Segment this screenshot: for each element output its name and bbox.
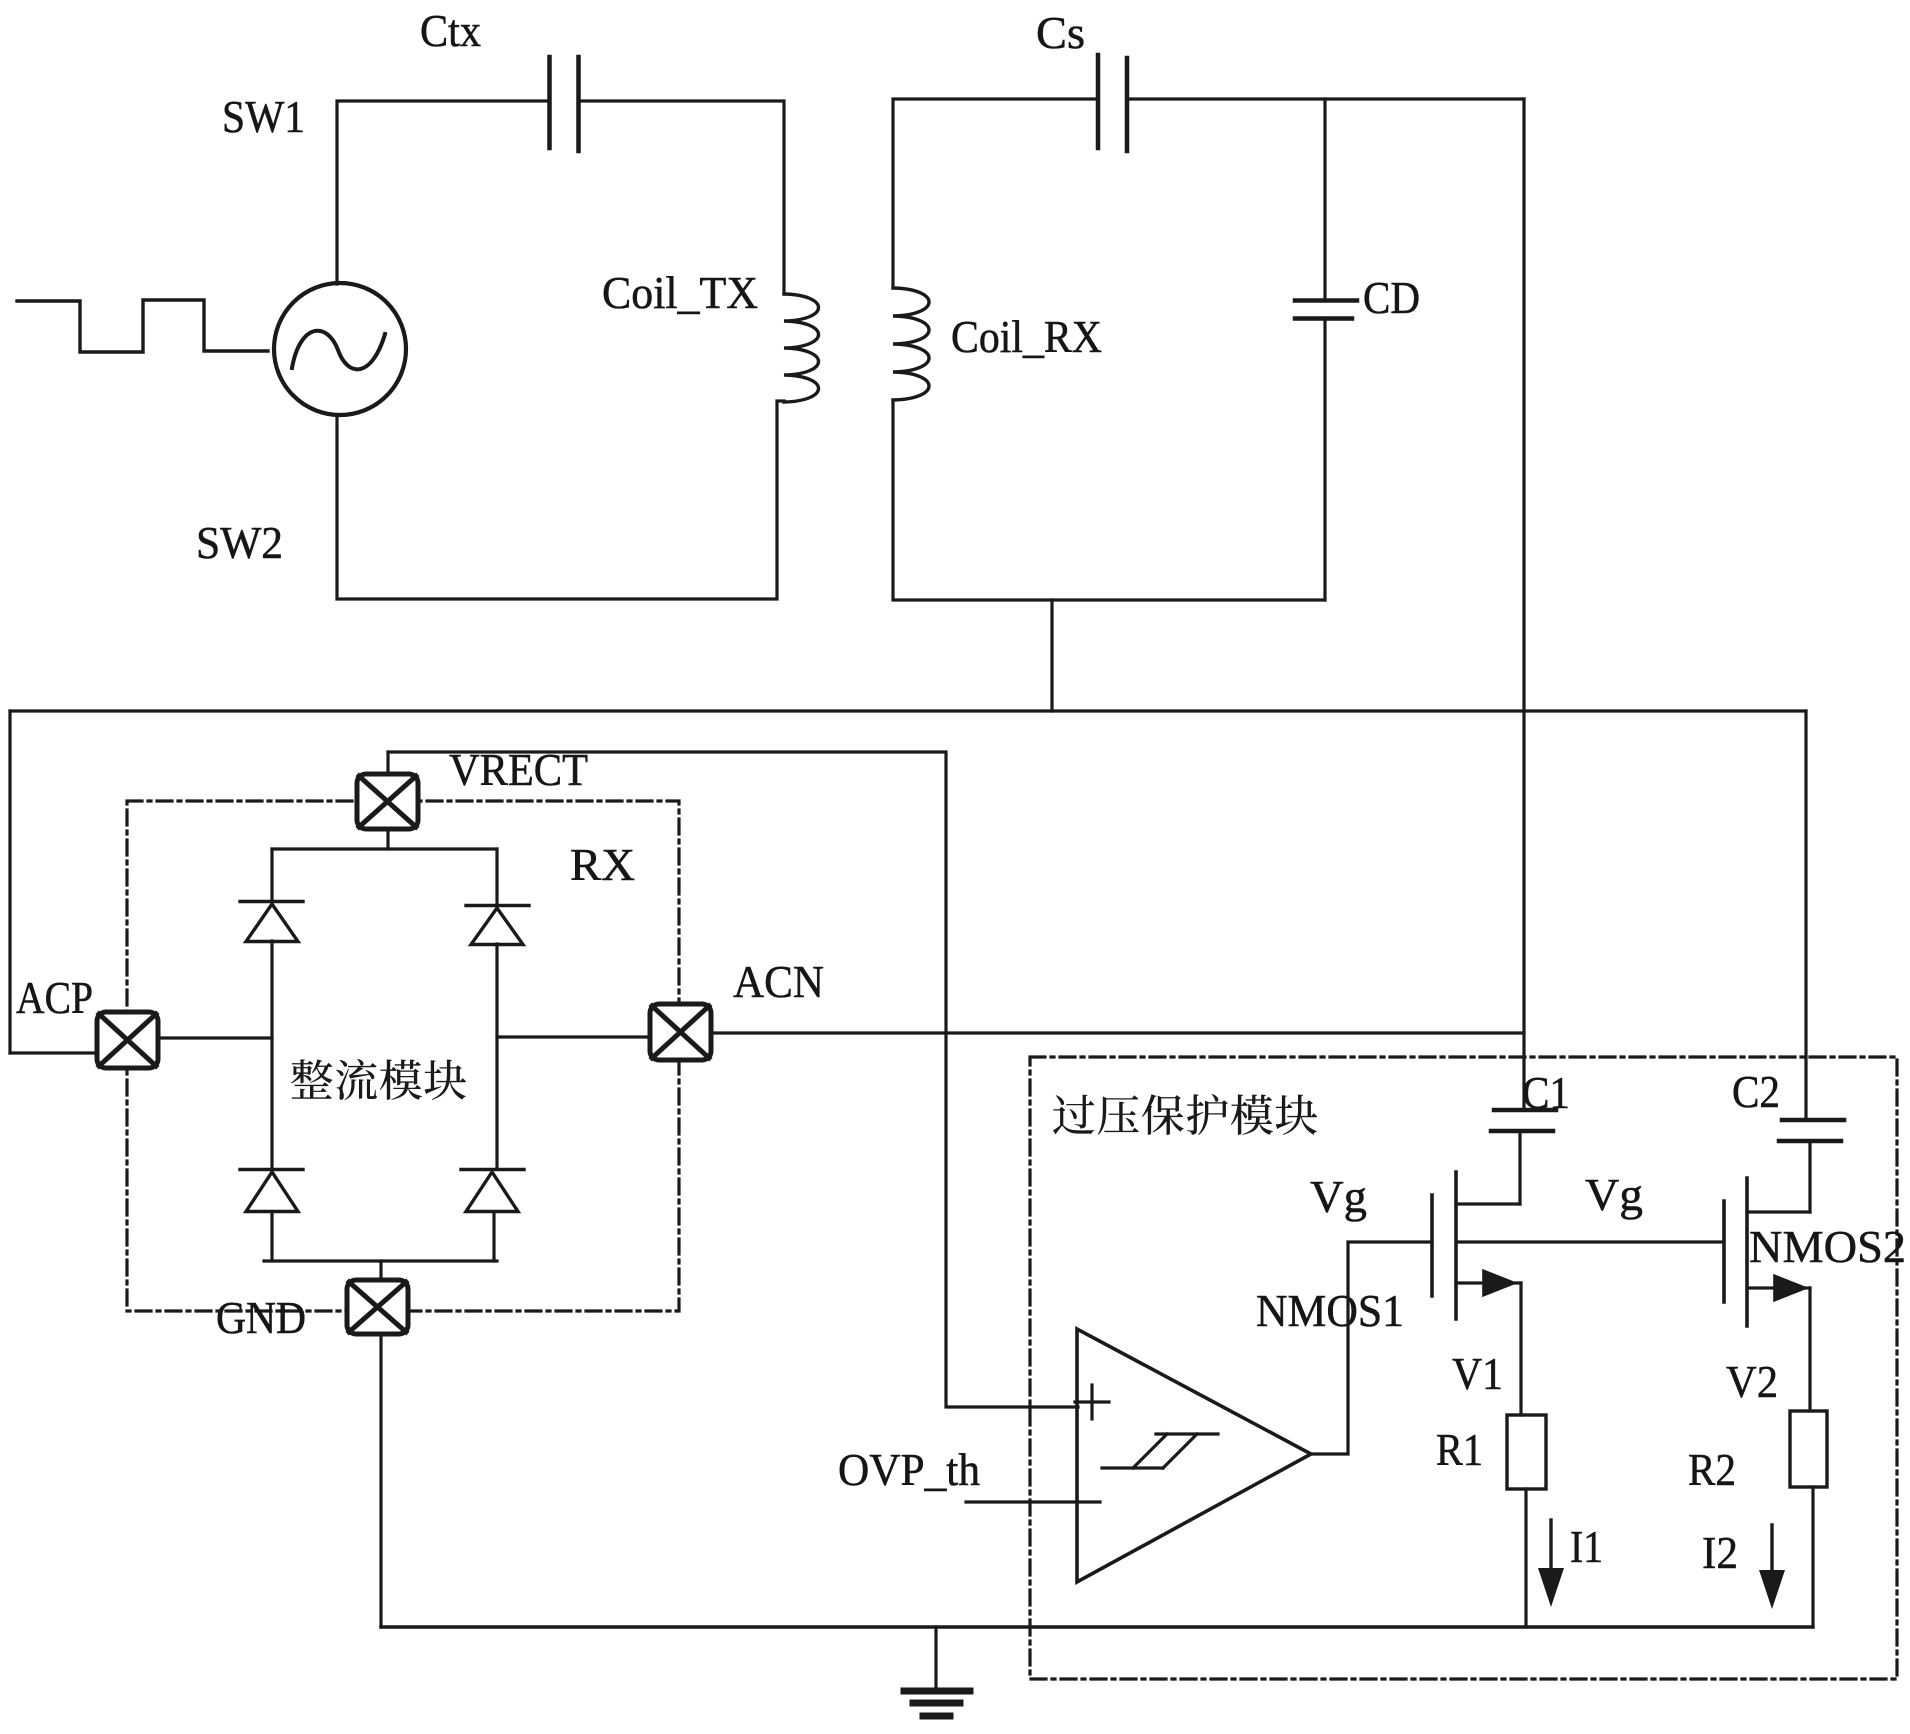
comparator hysteresis symbol xyxy=(1102,1434,1218,1468)
wire R2 to ground bus xyxy=(1811,1487,1814,1627)
pad ACN xyxy=(650,1004,711,1060)
svg-text:NMOS2: NMOS2 xyxy=(1749,1221,1906,1272)
svg-text:Vg: Vg xyxy=(1310,1171,1367,1222)
wire GND pad down to ground bus xyxy=(379,1334,382,1627)
svg-text:RX: RX xyxy=(570,839,635,890)
svg-text:R1: R1 xyxy=(1436,1424,1483,1475)
wire RX loop top-left xyxy=(893,99,1095,288)
wire ground bus xyxy=(381,1625,1813,1628)
wire bridge bottom rail xyxy=(264,1259,497,1262)
svg-text:CD: CD xyxy=(1363,272,1420,323)
capacitor CD bottom wire xyxy=(1323,318,1326,600)
resistor R1 xyxy=(1507,1415,1546,1489)
svg-text:GND: GND xyxy=(216,1292,306,1343)
svg-text:Vg: Vg xyxy=(1585,1169,1643,1220)
capacitor CD top wire xyxy=(1323,99,1326,300)
capacitor CD xyxy=(1295,298,1357,303)
OVP module label 过压保护模块 xyxy=(1053,1094,1317,1135)
wire C1 to NMOS1 drain xyxy=(1518,1131,1521,1204)
wire ACN right to C1 node xyxy=(711,1031,1524,1034)
wire AC source top to Ctx xyxy=(337,101,546,284)
svg-text:V1: V1 xyxy=(1452,1348,1503,1399)
svg-text:Coil_RX: Coil_RX xyxy=(951,311,1102,362)
wire R1 to ground bus xyxy=(1524,1489,1527,1627)
svg-text:VRECT: VRECT xyxy=(449,744,588,795)
svg-text:C2: C2 xyxy=(1732,1066,1780,1117)
current I2 arrow xyxy=(1770,1525,1773,1574)
wire main horizontal bus xyxy=(10,709,1806,712)
transistor NMOS2 xyxy=(1724,1178,1810,1326)
wire Coil_TX bottom / TX loop bottom xyxy=(337,401,784,599)
wire bridge right rail xyxy=(494,849,497,1261)
wire bridge to GND pad xyxy=(379,1261,382,1280)
wire ACP right xyxy=(158,1036,272,1039)
capacitor C1 xyxy=(1494,1108,1556,1113)
op-amp comparator U1 xyxy=(1077,1329,1311,1582)
svg-text:V2: V2 xyxy=(1726,1356,1778,1407)
wire Ctx to Coil_TX xyxy=(581,101,784,294)
current I1 arrow xyxy=(1549,1520,1552,1572)
inductor Coil_RX xyxy=(893,288,929,400)
wire NMOS1 source to R1 xyxy=(1519,1283,1522,1415)
svg-text:ACP: ACP xyxy=(16,972,93,1023)
svg-text:OVP_th: OVP_th xyxy=(838,1444,980,1495)
diode D3 (bottom-left) xyxy=(240,1170,303,1212)
svg-text:SW2: SW2 xyxy=(196,517,283,568)
pad GND xyxy=(347,1280,408,1334)
OVP module dash-dot box xyxy=(1030,1057,1897,1679)
svg-text:I1: I1 xyxy=(1570,1521,1603,1572)
svg-text:Cs: Cs xyxy=(1036,7,1085,58)
wire Coil_RX bottom / RX loop bottom xyxy=(893,400,1325,600)
svg-text:C1: C1 xyxy=(1522,1067,1570,1118)
comparator plus input mark xyxy=(1075,1385,1109,1419)
svg-text:R2: R2 xyxy=(1688,1444,1736,1495)
diode D4 (bottom-right) xyxy=(461,1170,524,1212)
transistor NMOS1 xyxy=(1432,1172,1521,1319)
wire bridge left rail xyxy=(270,849,273,1261)
wire left bus vertical to ACP xyxy=(8,711,11,1053)
svg-text:SW1: SW1 xyxy=(222,91,305,142)
diode D1 (top-left) xyxy=(240,902,303,942)
capacitor Ctx xyxy=(547,57,552,148)
wire NMOS2 source to R2 xyxy=(1808,1288,1811,1411)
wire ACP left xyxy=(10,1051,97,1054)
square-wave input signal xyxy=(17,300,268,352)
wire comparator output to NMOS1 gate (Vg) xyxy=(1311,1242,1432,1454)
wire OVP_th to comparator minus input xyxy=(966,1500,1100,1503)
wire C2 to NMOS2 drain xyxy=(1808,1141,1811,1212)
wire Cs to right corner xyxy=(1130,97,1524,100)
rectifier module label 整流模块 xyxy=(291,1059,466,1100)
wire Vg to NMOS2 gate xyxy=(1458,1240,1724,1243)
wire bridge top rail xyxy=(272,847,497,850)
pad ACP xyxy=(97,1012,158,1068)
svg-text:ACN: ACN xyxy=(733,956,824,1007)
diode D2 (top-right) xyxy=(466,906,529,945)
ground symbol xyxy=(904,1627,970,1716)
pad VRECT xyxy=(357,752,418,849)
RX module dash-dot box xyxy=(127,801,679,1311)
AC source V1 (sine source circle) xyxy=(274,283,406,415)
svg-text:NMOS1: NMOS1 xyxy=(1256,1285,1404,1336)
resistor R2 xyxy=(1790,1411,1827,1487)
wire ACN left xyxy=(497,1035,650,1038)
inductor Coil_TX xyxy=(784,294,819,402)
svg-text:Ctx: Ctx xyxy=(420,5,481,56)
wire VRECT to comparator plus input xyxy=(388,752,1078,1407)
wire bus right vertical to C2 xyxy=(1804,711,1807,1120)
wire RX loop to main bus xyxy=(1050,600,1053,711)
svg-text:I2: I2 xyxy=(1702,1527,1738,1578)
wire Cs node vertical to C1 xyxy=(1522,99,1525,1110)
svg-text:Coil_TX: Coil_TX xyxy=(602,267,758,318)
capacitor Cs xyxy=(1096,55,1101,148)
capacitor C2 xyxy=(1782,1118,1844,1123)
